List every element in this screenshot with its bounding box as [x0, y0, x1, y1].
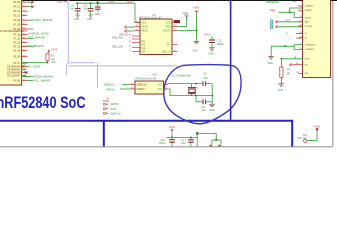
IC U1C box with XC pins [135, 81, 164, 94]
svg-text:GND: GND [74, 18, 80, 21]
svg-text:+3V0: +3V0 [51, 47, 58, 51]
svg-text:P1.10: P1.10 [13, 34, 20, 37]
svg-text:nSEL_A: nSEL_A [162, 50, 171, 53]
capacitor C20 [203, 72, 209, 86]
svg-text:NC: NC [305, 65, 309, 67]
svg-text:GND: GND [183, 12, 189, 15]
wire SCL_BMA400 [28, 80, 34, 82]
svg-text:VTBUS: VTBUS [305, 26, 313, 28]
wire XC2 bottom [168, 89, 212, 96]
U1A rotated pin numbers [23, 64, 26, 78]
capacitor C8 [77, 2, 79, 4]
blue annotation vertical line center [230, 0, 232, 121]
svg-text:P1.04: P1.04 [13, 19, 20, 22]
U1A pin stubs [22, 2, 28, 80]
svg-text:100n: 100n [181, 142, 187, 145]
connector J4 [103, 97, 121, 115]
lavender horizontal line [68, 65, 177, 67]
power +3V0 at U3 [178, 6, 200, 41]
svg-text:SWDCLK: SWDCLK [137, 83, 148, 86]
capacitor C21 [196, 96, 212, 112]
test point TP4 [297, 124, 320, 142]
svg-text:INT1_A: INT1_A [119, 34, 128, 37]
capacitor C10 [95, 2, 101, 16]
svg-text:P1.03: P1.03 [13, 15, 20, 18]
ground symbol above U3 right [178, 12, 190, 27]
svg-text:NB: NB [305, 73, 309, 75]
svg-text:+3V0: +3V0 [168, 125, 175, 129]
svg-text:OSC_A/N: OSC_A/N [112, 37, 123, 40]
U1C pin stubs [130, 84, 168, 89]
svg-text:IN1: IN1 [142, 40, 146, 43]
svg-text:XC2: XC2 [157, 88, 162, 91]
U2 pin numbers [299, 7, 302, 50]
capacitor C13 [204, 34, 224, 56]
wire MISO_BMA400 [28, 19, 34, 21]
svg-text:8pF: 8pF [204, 77, 209, 80]
blue annotation vertical line left [103, 121, 105, 147]
svg-text:74C: 74C [293, 1, 297, 3]
svg-text:P1.14: P1.14 [13, 50, 20, 53]
svg-text:IN3: IN3 [142, 47, 146, 50]
svg-text:C12: C12 [83, 5, 88, 7]
svg-text:P0.26: P0.26 [13, 79, 20, 82]
U3 left pin names [142, 21, 148, 53]
svg-text:SWDIO: SWDIO [111, 103, 119, 106]
svg-text:VDD: VDD [165, 21, 170, 24]
IC U1A nRF52840 port-pin box [0, 0, 22, 85]
wire XC1 top [167, 83, 169, 86]
svg-text:P1.13: P1.13 [13, 46, 20, 49]
svg-text:GND: GND [278, 89, 284, 92]
svg-text:GND: GND [268, 62, 274, 65]
U2 pin names [305, 6, 316, 76]
svg-text:SCK: SCK [142, 21, 147, 24]
annotation ellipse [164, 65, 241, 124]
svg-text:nRF52/Mini-QInn-B1: nRF52/Mini-QInn-B1 [135, 78, 158, 81]
wire P1.06 [28, 28, 34, 30]
svg-text:P1.09/TRACEDATA3: P1.09/TRACEDATA3 [0, 30, 24, 33]
sheet top border [0, 0, 337, 1]
svg-text:P1.27: P1.27 [13, 62, 20, 65]
wire SWDIO [120, 88, 130, 90]
bottom power +3V0 [168, 125, 175, 137]
svg-text:P1.00: P1.00 [13, 1, 20, 4]
no-connect X [25, 71, 27, 73]
svg-text:VDDIO: VDDIO [163, 29, 171, 32]
svg-text:GND: GND [285, 20, 290, 22]
svg-text:P1.01: P1.01 [13, 6, 20, 9]
wire +3V0 top rail [76, 2, 136, 4]
crystal Y2 fragment [210, 140, 221, 147]
svg-text:XC1/32768kHz/9pF: XC1/32768kHz/9pF [171, 76, 192, 78]
svg-text:CHPM(1): CHPM(1) [305, 49, 314, 51]
blue annotation horizontal line [0, 120, 292, 122]
svg-text:INT: INT [167, 43, 171, 46]
crystal Y1 [188, 84, 199, 96]
wire BAT_LEVEL [21, 65, 41, 69]
bottom rail wire [166, 136, 197, 138]
U1A pin name labels [7, 1, 20, 82]
svg-text:MOSI: MOSI [142, 25, 148, 28]
svg-text:TP4: TP4 [302, 134, 307, 137]
sheet bottom border [0, 146, 333, 147]
svg-text:D-: D- [305, 33, 308, 35]
svg-text:NFC: NFC [305, 59, 310, 61]
svg-text:SWO: SWO [111, 108, 117, 111]
U1C pin numbers [131, 83, 168, 90]
ground rail of crystal [209, 84, 215, 112]
wire NFC row [281, 58, 302, 60]
svg-text:nRF52840 SoC: nRF52840 SoC [0, 94, 86, 112]
lavender vertical mid [96, 63, 98, 88]
svg-text:SWD: SWD [103, 100, 109, 103]
svg-text:GND: GND [165, 25, 171, 28]
wire P1.01 [28, 6, 34, 8]
svg-text:GND: GND [192, 50, 198, 53]
svg-text:C17: C17 [181, 139, 186, 142]
ground symbol below +3V0 wire [192, 41, 199, 52]
wire P1.00 [28, 1, 34, 3]
svg-text:P0.28/AIN4: P0.28/AIN4 [7, 65, 20, 68]
stub row 2A [290, 62, 303, 66]
svg-text:100nF: 100nF [159, 142, 166, 145]
svg-text:+3V0: +3V0 [108, 0, 115, 3]
svg-text:USBDM: USBDM [305, 6, 313, 8]
lavender guide vertical top [67, 0, 69, 62]
svg-text:GND: GND [95, 13, 101, 16]
wire MODE_BMA400 [22, 76, 34, 78]
svg-text:IN2: IN2 [142, 43, 146, 46]
svg-text:P0.30/AIN6: P0.30/AIN6 [7, 71, 20, 74]
svg-text:+3V0: +3V0 [313, 124, 320, 128]
svg-text:4A 5A 6A 7A: 4A 5A 6A 7A [23, 64, 26, 78]
svg-text:IN4: IN4 [142, 50, 146, 53]
svg-text:OSC_L/N: OSC_L/N [112, 46, 123, 49]
svg-text:1M: 1M [287, 72, 290, 75]
resistor R4 [278, 58, 291, 92]
svg-text:SWDIO: SWDIO [137, 88, 145, 91]
wire rail drop to U3 [135, 3, 140, 22]
U3 pin stubs [132, 23, 178, 52]
net-tie green box fragment [267, 0, 278, 2]
blue annotation vertical line right [291, 120, 293, 147]
svg-text:GND: GND [87, 18, 93, 21]
U1C pin names [137, 83, 163, 91]
wire to crystal Y2 [196, 132, 217, 146]
svg-text:8pF: 8pF [202, 109, 207, 112]
U1A pin numbers [23, 1, 26, 81]
lavender rounded corner [67, 63, 95, 75]
svg-text:+3V0: +3V0 [126, 0, 133, 3]
svg-text:3V0_TP: 3V0_TP [297, 137, 306, 140]
wire INT2 [28, 46, 34, 48]
svg-text:P1.02: P1.02 [13, 10, 20, 13]
svg-text:+3V0: +3V0 [193, 6, 200, 10]
svg-text:WFC/BLD-30.ALL.BT: WFC/BLD-30.ALL.BT [139, 17, 162, 20]
U3 pin numbers [129, 21, 176, 52]
svg-text:XC1: XC1 [157, 83, 162, 86]
svg-text:C16: C16 [160, 139, 165, 142]
wire SCL with junction [22, 60, 57, 64]
wire SWDCLK [122, 83, 130, 85]
svg-text:P1.12: P1.12 [13, 42, 20, 45]
IC U2 right body [303, 0, 331, 78]
capacitor C9 [90, 2, 92, 4]
svg-text:GND: GND [209, 109, 215, 112]
power +3V0 at R1 [48, 47, 58, 52]
svg-text:GND: GND [208, 52, 214, 55]
svg-text:P1.11: P1.11 [14, 38, 21, 41]
svg-text:P1.15: P1.15 [13, 56, 20, 59]
global label row 2 [271, 25, 303, 30]
svg-text:P0.29/AIN5: P0.29/AIN5 [7, 68, 20, 71]
sheet right border [332, 1, 333, 147]
U3 left stub wires [125, 26, 127, 29]
capacitor C17 [181, 137, 194, 146]
U3 right pin names [162, 21, 171, 53]
svg-text:P1.05: P1.05 [13, 23, 20, 26]
svg-text:MISO: MISO [142, 29, 148, 32]
svg-text:USBDP: USBDP [305, 10, 313, 12]
wire INT1 [28, 38, 34, 40]
wire antenna [279, 8, 303, 17]
svg-text:VBUS: VBUS [305, 17, 311, 19]
capacitor C16 [159, 137, 175, 146]
global label row 1 [271, 20, 303, 25]
IC U3 accelerometer body [140, 19, 172, 55]
U3 NC mark [174, 20, 180, 23]
svg-text:SWDCLK: SWDCLK [111, 112, 122, 115]
svg-text:OSC4: OSC4 [204, 34, 211, 37]
resistor R1 pull-up [46, 53, 56, 63]
svg-text:D-: D- [286, 32, 289, 35]
svg-text:P0.31/AIN7: P0.31/AIN7 [7, 74, 20, 77]
svg-text:C21: C21 [201, 106, 206, 109]
ground branch mid right [268, 45, 303, 65]
svg-text:C20: C20 [203, 72, 208, 75]
U2 pin stubs [298, 6, 303, 74]
